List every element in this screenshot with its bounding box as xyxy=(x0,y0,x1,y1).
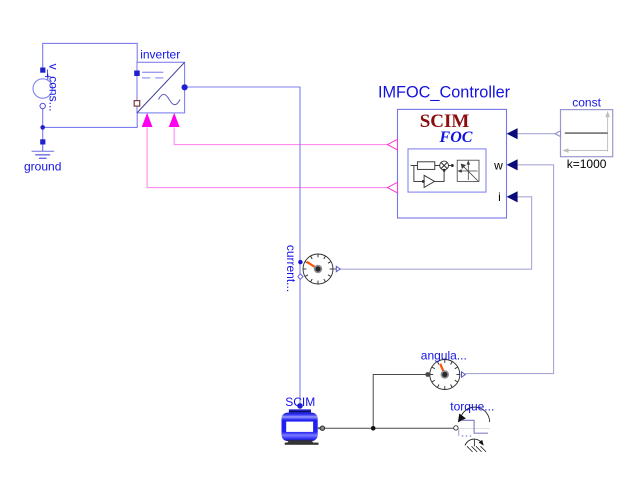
svg-text:current...: current... xyxy=(284,245,298,292)
voltage source positive pin xyxy=(40,68,45,73)
controller pink output connector 1 xyxy=(388,139,398,150)
torque support stem xyxy=(473,439,475,446)
signal wire from const output to controller input 1 xyxy=(518,133,556,135)
controller inner icon box xyxy=(408,149,486,192)
pink control wire from controller output 2 to inverter gate arrow 1 xyxy=(147,128,387,188)
const value line xyxy=(565,132,608,134)
inverter ac output pin xyxy=(182,84,188,90)
inverter dc symbol xyxy=(142,72,163,78)
signal wire i from current sensor output to controller input i xyxy=(340,197,531,269)
SCIM motor base xyxy=(287,440,314,443)
inner diagram transform box xyxy=(457,160,479,181)
pink control wire from controller output 1 to inverter gate arrow 2 xyxy=(174,128,387,145)
junction on shaft wire xyxy=(371,426,376,431)
svg-text:v_cons...: v_cons... xyxy=(47,64,61,112)
torque support hatching xyxy=(467,446,486,452)
signal wire w from angular sensor output to controller input w xyxy=(465,165,553,374)
controller input arrow 1 (from const) xyxy=(507,128,518,139)
inner diagram multiplier circle xyxy=(440,161,454,170)
inverter dc positive pin xyxy=(134,71,140,77)
shaft wire from SCIM flange to torque flange xyxy=(325,427,454,429)
controller block body xyxy=(398,109,507,218)
wire from v_const negative pin down to junction and ground xyxy=(42,106,44,142)
inverter gate arrow 2 xyxy=(169,113,180,127)
controller pink output connector 2 xyxy=(388,182,398,193)
SCIM motor window xyxy=(286,422,313,432)
shaft wire from angular sensor flange down to shaft junction xyxy=(373,375,427,429)
wire from inverter ac output down to SCIM motor plug xyxy=(186,87,300,405)
svg-text:k=1000: k=1000 xyxy=(567,157,607,171)
ground pin xyxy=(40,139,45,144)
current sensor negative pin diamond xyxy=(298,274,303,279)
const block body xyxy=(561,110,613,157)
current sensor output stub xyxy=(333,268,336,270)
svg-text:SCIM: SCIM xyxy=(285,395,315,409)
svg-text:FOC: FOC xyxy=(439,129,473,146)
inverter diagonal xyxy=(137,62,185,113)
angular sensor needle xyxy=(440,364,445,375)
const block axes xyxy=(564,112,610,152)
torque arc arrow xyxy=(460,407,489,422)
torque step curve xyxy=(462,420,488,433)
svg-text:i: i xyxy=(498,190,501,204)
torque t label dots xyxy=(458,430,460,437)
angular velocity sensor gauge xyxy=(430,360,460,390)
voltage source negative pin (open circle) xyxy=(40,103,45,108)
SCIM plug wire end dot xyxy=(297,403,303,409)
controller input arrow i xyxy=(507,191,518,202)
svg-text:w: w xyxy=(493,159,503,173)
voltage source plus sign xyxy=(45,74,51,80)
current sensor positive pin dot xyxy=(298,260,302,264)
svg-text:inverter: inverter xyxy=(140,47,180,61)
inverter block body xyxy=(137,62,185,113)
inverter dc negative pin (open square) xyxy=(134,101,140,107)
inner diagram feedback amplifier triangle xyxy=(414,166,445,188)
controller input arrow w xyxy=(507,159,518,170)
SCIM motor terminal cap xyxy=(289,409,311,414)
const output connector (open triangle) xyxy=(555,131,560,137)
angular sensor flange dot xyxy=(425,372,430,377)
svg-text:ground: ground xyxy=(24,160,61,174)
SCIM shaft connector xyxy=(318,427,321,429)
inner diagram PI block xyxy=(411,162,440,170)
inverter gate arrow 1 xyxy=(142,113,153,127)
torque time axis xyxy=(456,427,490,429)
svg-text:torque...: torque... xyxy=(450,400,494,414)
junction at voltage source bottom xyxy=(40,125,45,130)
torque support arc xyxy=(465,439,483,445)
wire from v_const positive pin to inverter dc positive pin xyxy=(43,43,138,70)
voltage source v_cons circle xyxy=(33,79,52,98)
svg-text:angula...: angula... xyxy=(421,349,467,363)
current sensor hub xyxy=(314,265,322,273)
current sensor output connector (open triangle) xyxy=(336,266,340,271)
SCIM motor body xyxy=(282,413,318,441)
svg-text:const: const xyxy=(572,96,601,110)
torque flange connector (open circle) xyxy=(454,426,458,430)
svg-text:IMFOC_Controller: IMFOC_Controller xyxy=(378,84,511,102)
current sensor gauge xyxy=(303,254,333,284)
angular sensor output connector (open triangle) xyxy=(462,372,466,377)
angular sensor hub xyxy=(441,370,449,378)
wire from junction to inverter dc negative pin xyxy=(43,106,138,127)
current sensor needle xyxy=(307,262,318,269)
ground symbol xyxy=(32,145,54,159)
inverter ac sine symbol xyxy=(159,94,181,104)
